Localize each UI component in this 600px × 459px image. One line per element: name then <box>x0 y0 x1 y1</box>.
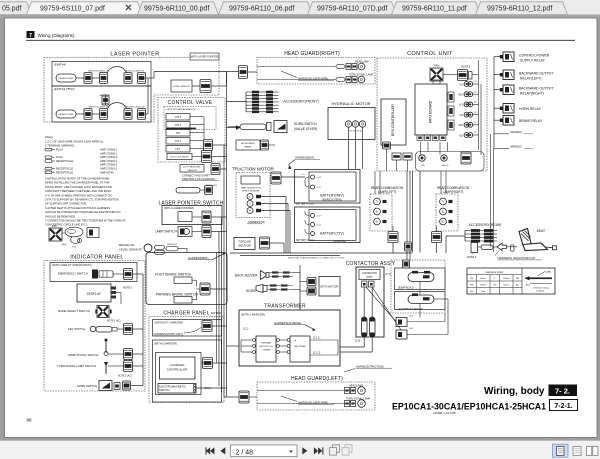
svg-text:LAMP SWITCH: LAMP SWITCH <box>155 230 178 234</box>
svg-text:2 / 48: 2 / 48 <box>236 449 254 456</box>
svg-text:SEAT: SEAT <box>537 229 546 233</box>
svg-text:(E)NP0CA1: HARNESS(BAT) IS CON: (E)NP0CA1: HARNESS(BAT) IS CONNECTED TO … <box>288 256 344 259</box>
svg-text:EP10CA1-30CA1/EP10HCA1-25HCA1: EP10CA1-30CA1/EP10HCA1-25HCA1 <box>392 401 546 411</box>
svg-text:HARNESS(LASER.W): HARNESS(LASER.W) <box>88 70 108 73</box>
svg-text:MODE SELECT SWITCH: MODE SELECT SWITCH <box>58 309 90 313</box>
svg-text:V1: V1 <box>459 82 463 86</box>
svg-text:SHOULD BE CONNECTED CH4(PARALL: SHOULD BE CONNECTED CH4(PARALLEL&SHORTCI… <box>45 210 121 214</box>
svg-text:FIG.: FIG. <box>62 244 67 247</box>
svg-text:(E)NP*BCA1/: (E)NP*BCA1/ <box>398 285 414 289</box>
svg-text:HORN: HORN <box>246 289 256 293</box>
svg-text:(C.1.1): (C.1.1) <box>313 337 321 340</box>
svg-text:7: 7 <box>29 33 32 39</box>
svg-text:LAMP(LEFT): LAMP(LEFT) <box>378 190 397 194</box>
svg-text:CHARGER PANEL: CHARGER PANEL <box>163 310 209 316</box>
svg-text:Green: Green <box>503 284 510 287</box>
svg-text:3.INSTALLATION NOTES OF THE CH: 3.INSTALLATION NOTES OF THE CHARGER PANE… <box>45 177 111 181</box>
svg-text:TILT: TILT <box>176 132 181 135</box>
svg-text:ATT.1: ATT.1 <box>175 140 182 143</box>
svg-text:LIFT LOCK VALVE: LIFT LOCK VALVE <box>170 156 189 159</box>
svg-text:HARNESS(LASER WIRE): HARNESS(LASER WIRE) <box>298 401 328 405</box>
svg-text:V: V <box>249 202 251 206</box>
svg-text:5.FIX TO SUPPORT BY TIE-WRAP C: 5.FIX TO SUPPORT BY TIE-WRAP CT2. FOR PR… <box>45 198 119 202</box>
svg-text:PARKING BRAKE SWITCH: PARKING BRAKE SWITCH <box>156 292 198 296</box>
svg-text:CONTACTOR ASS'Y: CONTACTOR ASS'Y <box>346 261 396 267</box>
svg-text:(ONLY WITH ATTACHMENTS): (ONLY WITH ATTACHMENTS) <box>166 108 196 111</box>
svg-text:ACCESSORY(FRONT): ACCESSORY(FRONT) <box>283 100 318 104</box>
svg-text:Harness Color: Harness Color <box>486 270 504 274</box>
svg-text:2.TERMINAL MARKING: 2.TERMINAL MARKING <box>45 144 74 148</box>
svg-text:U: U <box>249 195 251 199</box>
svg-text:(D): (D) <box>474 132 477 134</box>
svg-text:PRINTING FOR CHARGING: PRINTING FOR CHARGING <box>182 177 215 181</box>
svg-text:HARNESS(CHARGE): HARNESS(CHARGE) <box>274 321 301 325</box>
svg-text:7- 2.: 7- 2. <box>555 387 570 396</box>
svg-text:(E)NP*A4-TB*A4/: (E)NP*A4-TB*A4/ <box>54 87 75 91</box>
svg-text:RECEPTACLE: RECEPTACLE <box>56 170 73 174</box>
svg-text:TURN SIGNAL LAMP: TURN SIGNAL LAMP <box>349 73 374 76</box>
svg-text:ELECTROMAGNETIC: ELECTROMAGNETIC <box>159 384 186 388</box>
svg-text:(WITH CHARGER): (WITH CHARGER) <box>154 342 177 346</box>
svg-text:RECEPTACLE: RECEPTACLE <box>56 159 73 163</box>
svg-text:TRACTION MOTOR: TRACTION MOTOR <box>232 167 274 172</box>
svg-text:ATT.3: ATT.3 <box>175 124 182 127</box>
svg-text:CHARGER: CHARGER <box>169 363 185 367</box>
svg-text:CONTROL VALVE: CONTROL VALVE <box>168 100 213 106</box>
svg-text:AMP 170362-1: AMP 170362-1 <box>100 148 118 152</box>
svg-text:BACKWARD OUTPUT: BACKWARD OUTPUT <box>519 72 553 76</box>
svg-text:(VALVE LEVER): (VALVE LEVER) <box>294 127 317 131</box>
svg-text:99759-6R110_12.pdf: 99759-6R110_12.pdf <box>487 5 552 12</box>
svg-text:PANEL: PANEL <box>244 145 252 148</box>
svg-text:RD: RD <box>470 291 474 293</box>
svg-text:OF SLIPPING-OFF CONNECTOR.: OF SLIPPING-OFF CONNECTOR. <box>45 202 87 206</box>
svg-text:CONTACTOR: CONTACTOR <box>362 272 377 275</box>
svg-text:EMERGENCY SWITCH: EMERGENCY SWITCH <box>58 271 88 275</box>
svg-text:MPU BOARD: MPU BOARD <box>429 100 433 123</box>
svg-text:(E)NP*A4/: (E)NP*A4/ <box>54 62 66 66</box>
svg-text:HORN RELAY: HORN RELAY <box>519 107 542 111</box>
svg-text:(WITH CHARGER): (WITH CHARGER) <box>241 312 265 316</box>
svg-text:+OUT: +OUT <box>316 177 322 179</box>
svg-text:LIFT: LIFT <box>176 148 181 151</box>
svg-text:NOTE 5 (AC): NOTE 5 (AC) <box>118 374 132 377</box>
svg-text:NOTE 5 (AC): NOTE 5 (AC) <box>107 320 121 323</box>
svg-text:Blue: Blue <box>526 285 531 287</box>
svg-text:MODEL 7-10/ S-88: MODEL 7-10/ S-88 <box>434 411 457 415</box>
svg-text:White: White <box>480 284 486 287</box>
svg-text:DISPLAY: DISPLAY <box>87 292 102 296</box>
svg-text:AMP 60796: AMP 60796 <box>100 170 114 174</box>
svg-text:Lead: Lead <box>546 271 552 274</box>
svg-text:TM TB TB (D): TM TB TB (D) <box>349 131 363 133</box>
svg-text:-OUT: -OUT <box>316 187 322 189</box>
svg-text:KEY SWITCH: KEY SWITCH <box>68 327 85 331</box>
svg-text:HEADLAMP: HEADLAMP <box>349 384 363 387</box>
svg-text:WH: WH <box>470 285 474 287</box>
svg-text:05.pdf: 05.pdf <box>2 5 22 12</box>
svg-text:AMP 170361-1: AMP 170361-1 <box>100 159 118 163</box>
svg-text:HARNESS(LASER.W): HARNESS(LASER.W) <box>124 106 144 109</box>
svg-text:HARNESS: HARNESS <box>99 94 109 97</box>
svg-text:HARNESS: HARNESS <box>510 145 522 148</box>
svg-text:BRAKE RELAY: BRAKE RELAY <box>519 119 543 123</box>
svg-text:(Note): (Note) <box>45 135 53 139</box>
svg-text:CONTROL POWER: CONTROL POWER <box>519 54 550 58</box>
svg-text:NOTE 7: NOTE 7 <box>123 286 133 290</box>
svg-text:99759-6R110_07D.pdf: 99759-6R110_07D.pdf <box>317 5 387 12</box>
svg-text:HEAD GUARD(RIGHT): HEAD GUARD(RIGHT) <box>284 51 340 57</box>
svg-text:(E)NP5CA1-TB*A1/: (E)NP5CA1-TB*A1/ <box>322 199 342 202</box>
svg-text:Black: Black <box>481 278 487 280</box>
svg-text:BATTERY(72V): BATTERY(72V) <box>320 231 344 235</box>
svg-text:FAN: FAN <box>434 64 440 68</box>
svg-text:THERMAL: THERMAL <box>261 342 272 345</box>
svg-text:NOTE 4: NOTE 4 <box>467 255 477 259</box>
svg-text:CONTROLLER: CONTROLLER <box>167 368 188 372</box>
svg-text:SENSOR: SENSOR <box>187 170 197 172</box>
svg-text:SHOULD BE REMOVED.: SHOULD BE REMOVED. <box>45 214 76 218</box>
svg-text:Wiring, body: Wiring, body <box>484 386 545 397</box>
svg-text:HEAD GUARD(LEFT): HEAD GUARD(LEFT) <box>291 376 343 382</box>
svg-text:TRACTION MOTOR: TRACTION MOTOR <box>241 186 261 189</box>
svg-text:U2: U2 <box>459 133 463 137</box>
svg-text:HYDRAULIC MOTOR: HYDRAULIC MOTOR <box>331 101 370 106</box>
svg-text:(WITH LASER P.T. SPECIFICATION: (WITH LASER P.T. SPECIFICATION) <box>52 264 92 267</box>
svg-text:(C.8): (C.8) <box>355 340 361 343</box>
svg-text:(WITH LASER POINTER): (WITH LASER POINTER) <box>190 56 219 59</box>
svg-text:WHEN INSTALLING THE CHARGER PA: WHEN INSTALLING THE CHARGER PANEL TO THE <box>45 181 110 185</box>
svg-text:EPS CONTROLLER: EPS CONTROLLER <box>391 104 395 136</box>
svg-text:(D): (D) <box>474 91 477 93</box>
svg-text:U1: U1 <box>459 103 463 107</box>
svg-text:(C.1.2): (C.1.2) <box>313 352 321 355</box>
svg-text:BATTERY(48V): BATTERY(48V) <box>320 193 344 197</box>
svg-text:HARNESS(LASER.W): HARNESS(LASER.W) <box>88 106 108 109</box>
svg-text:PLUG: PLUG <box>56 155 63 159</box>
svg-text:TRUCK BODY, USE TOOTHED LOCK W: TRUCK BODY, USE TOOTHED LOCK WASHERS FOR <box>45 185 112 189</box>
svg-text:NOTE (AC): NOTE (AC) <box>206 184 217 187</box>
svg-text:HARNESS SHORTCIRCUIT: HARNESS SHORTCIRCUIT <box>498 256 536 260</box>
svg-text:BATTERY PLUG: BATTERY PLUG <box>296 239 314 242</box>
svg-text:RECTIFIER: RECTIFIER <box>294 346 306 348</box>
svg-text:(WITHOUT CHARGER): (WITHOUT CHARGER) <box>155 321 184 325</box>
svg-text:W2: W2 <box>459 123 464 127</box>
svg-text:RELAY(RIGHT): RELAY(RIGHT) <box>520 91 544 95</box>
svg-text:BATTERY PLUG: BATTERY PLUG <box>296 202 314 205</box>
svg-text:(D): (D) <box>474 112 477 114</box>
svg-text:99759-6R110_06.pdf: 99759-6R110_06.pdf <box>229 5 294 12</box>
svg-text:HORN SWITCH: HORN SWITCH <box>294 122 318 126</box>
svg-text:RA LED: RA LED <box>441 164 449 167</box>
svg-text:99759-6R110_00.pdf: 99759-6R110_00.pdf <box>144 5 209 12</box>
svg-text:PROTECTOR: PROTECTOR <box>259 346 273 348</box>
svg-text:ATT.4: ATT.4 <box>175 116 182 119</box>
svg-text:HARNESS(LASER.W): HARNESS(LASER.W) <box>124 70 144 73</box>
svg-text:AMP 170366-1: AMP 170366-1 <box>100 163 118 167</box>
svg-text:+ TRANS: + TRANS <box>261 349 271 352</box>
svg-text:99759-6S110_07.pdf: 99759-6S110_07.pdf <box>40 5 105 12</box>
svg-text:TRANSFORMER: TRANSFORMER <box>264 304 306 310</box>
svg-text:SWITCH: SWITCH <box>159 388 170 392</box>
svg-text:TURN SIGNAL LAMP: TURN SIGNAL LAMP <box>346 397 371 400</box>
svg-text:(D): (D) <box>474 122 477 124</box>
svg-text:GN: GN <box>493 285 497 287</box>
svg-text:CONTINUITY BETWEEN THE PANEL A: CONTINUITY BETWEEN THE PANEL AND THE BOD… <box>45 189 112 193</box>
svg-text:-OUT: -OUT <box>316 225 322 227</box>
svg-text:HARNESS(TM): HARNESS(TM) <box>248 221 265 224</box>
svg-text:(D): (D) <box>474 102 477 104</box>
svg-text:S.L: S.L <box>302 174 305 176</box>
svg-text:PLUG: PLUG <box>56 148 63 152</box>
svg-text:AMP 170365-1: AMP 170365-1 <box>100 151 118 155</box>
svg-text:CONTROL UNIT: CONTROL UNIT <box>407 51 453 57</box>
svg-text:HORN SWITCH: HORN SWITCH <box>77 384 97 388</box>
svg-text:AMP 170361-1: AMP 170361-1 <box>100 167 118 171</box>
svg-text:FOOT BRAKE SWITCH: FOOT BRAKE SWITCH <box>155 272 192 276</box>
svg-text:In Briefly marking: In Briefly marking <box>533 287 550 290</box>
svg-text:(sample): (sample) <box>536 291 544 293</box>
svg-text:LEVEL SENSOR: LEVEL SENSOR <box>119 247 143 251</box>
svg-text:SPEED SENSOR: SPEED SENSOR <box>242 190 260 192</box>
svg-text:HARNESS(LASER WIRE): HARNESS(LASER WIRE) <box>298 77 328 81</box>
svg-text:F.05: F.05 <box>52 225 57 228</box>
svg-text:(WITH LASER POINTER): (WITH LASER POINTER) <box>164 206 194 210</box>
svg-text:SENSOR: SENSOR <box>238 244 252 248</box>
svg-text:LASER POINTER: LASER POINTER <box>110 52 159 58</box>
svg-text:(C.2): (C.2) <box>386 273 392 276</box>
svg-text:RECEPTACLE: RECEPTACLE <box>56 167 73 171</box>
svg-text:INDICATOR PANEL: INDICATOR PANEL <box>70 254 123 260</box>
svg-text:DIRECTIONAL SWITCH: DIRECTIONAL SWITCH <box>68 353 99 357</box>
svg-text:HARNESS(BAT): HARNESS(BAT) <box>188 256 209 260</box>
svg-text:(MAIN): (MAIN) <box>366 276 373 279</box>
svg-text:HARNESS(BAT): HARNESS(BAT) <box>295 156 314 160</box>
svg-text:AMP 170362-3: AMP 170362-3 <box>100 155 118 159</box>
svg-text:88: 88 <box>27 418 33 423</box>
svg-text:BACK BUZZER: BACK BUZZER <box>235 273 258 277</box>
svg-text:1.S-( ) OF LEAD WIRE SHOWS LEA: 1.S-( ) OF LEAD WIRE SHOWS LEAD WIRE No. <box>45 139 104 143</box>
svg-text:LIFT PRESSURE: LIFT PRESSURE <box>183 167 201 169</box>
svg-text:7-2-1.: 7-2-1. <box>554 403 572 410</box>
svg-text:99759-6R110_11.pdf: 99759-6R110_11.pdf <box>402 5 467 12</box>
svg-text:HARNESS: HARNESS <box>510 131 522 134</box>
svg-text:LEVEL SENSOR: LEVEL SENSOR <box>173 86 190 88</box>
svg-text:INSTRUMENT: INSTRUMENT <box>241 143 256 145</box>
svg-text:BACKWARD OUTPUT: BACKWARD OUTPUT <box>519 87 553 91</box>
svg-text:HARNESS: HARNESS <box>167 243 177 246</box>
svg-text:LASER SCING: LASER SCING <box>59 77 74 80</box>
svg-text:EPS MOTOR: EPS MOTOR <box>321 285 340 289</box>
svg-text:(C.1): (C.1) <box>243 328 249 331</box>
svg-text:V2: V2 <box>459 113 463 117</box>
svg-text:+OUT: +OUT <box>316 216 322 218</box>
svg-text:LASER SCING: LASER SCING <box>59 113 74 116</box>
svg-text:6.AFTER SEAT IS ATTACHED ON TR: 6.AFTER SEAT IS ATTACHED ON TRUCK,HARNES… <box>45 206 110 210</box>
svg-text:BR: BR <box>516 278 519 280</box>
svg-text:HARNESS(SHORT ONLY): HARNESS(SHORT ONLY) <box>154 333 184 336</box>
svg-text:TURN SIGNAL LAMP SWITCH: TURN SIGNAL LAMP SWITCH <box>57 364 96 368</box>
svg-text:7.CONNECTOR SHOULD BE TIED TOG: 7.CONNECTOR SHOULD BE TIED TOGETHER IN T… <box>45 219 126 223</box>
svg-text:Yellow: Yellow <box>503 278 510 280</box>
svg-text:4.'V','W' ARE SYMBOL PRINTING: 4.'V','W' ARE SYMBOL PRINTING WITH CONNE… <box>45 193 113 197</box>
svg-text:(D): (D) <box>474 81 477 83</box>
svg-text:HARNESS(TRACTION): HARNESS(TRACTION) <box>356 364 384 368</box>
svg-text:(E)NP*BCA1-3BCA1/: (E)NP*BCA1-3BCA1/ <box>398 307 423 311</box>
svg-text:(E)NP0CA1/: (E)NP0CA1/ <box>334 240 347 243</box>
svg-text:RELAY(LEFT): RELAY(LEFT) <box>520 76 541 80</box>
svg-text:SUPPLY RELAY: SUPPLY RELAY <box>520 58 546 62</box>
svg-text:HEADLAMP: HEADLAMP <box>355 61 369 64</box>
svg-text:ACCESSORY(REAR): ACCESSORY(REAR) <box>469 223 502 227</box>
svg-text:NOTE 8: NOTE 8 <box>461 65 471 69</box>
svg-text:W1: W1 <box>459 93 464 97</box>
svg-text:Wiring (Diagrams): Wiring (Diagrams) <box>38 33 75 38</box>
